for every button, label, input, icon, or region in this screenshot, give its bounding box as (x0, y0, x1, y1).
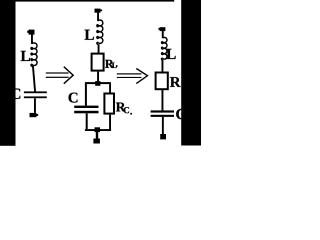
equivalence arrow 1 (46, 67, 73, 84)
wire (33, 66, 35, 92)
label RL (105, 60, 117, 68)
wire (109, 115, 111, 130)
wire (97, 72, 99, 82)
terminal (middle circuit, top) (95, 9, 103, 13)
wire (96, 132, 98, 139)
inductor L (middle circuit) (97, 20, 103, 44)
label C (right circuit, partly hidden by margin) (176, 109, 185, 119)
inductor L (left circuit) (31, 43, 37, 66)
label RC (116, 103, 132, 115)
wire (86, 113, 88, 129)
label C (left circuit, partly hidden by margin) (11, 89, 20, 99)
junction node (top) (95, 81, 100, 86)
terminal (middle circuit, bottom) (93, 139, 100, 144)
wire (right branch) (109, 84, 111, 93)
wire (162, 117, 164, 134)
resistor RL box (92, 54, 104, 71)
terminal (right circuit, bottom) (160, 134, 166, 139)
wire (162, 60, 164, 72)
label L (middle circuit) (85, 30, 94, 40)
wire (34, 98, 36, 113)
label C (middle circuit) (69, 93, 78, 103)
equivalence arrow 2 (117, 69, 148, 84)
wire (162, 89, 164, 110)
capacitor C (right circuit) (151, 110, 174, 117)
junction node (bottom) (95, 127, 101, 132)
wire (top rail) (85, 82, 111, 84)
inductor L (right circuit) (162, 37, 167, 60)
label L (left circuit) (21, 51, 30, 61)
wire (31, 35, 33, 44)
wire (97, 13, 99, 21)
wire (98, 44, 100, 53)
terminal (left circuit, bottom) (30, 113, 39, 117)
wire (bottom rail) (85, 129, 111, 131)
resistor R box (right circuit) (156, 73, 168, 90)
wire (162, 31, 164, 38)
terminal (right circuit, top) (158, 27, 165, 31)
label L (right circuit) (166, 49, 175, 59)
terminal (left circuit, top) (27, 30, 34, 35)
label R (right circuit) (170, 77, 181, 87)
capacitor C (left circuit) (24, 91, 47, 98)
resistor RC box (104, 94, 114, 114)
capacitor C (middle circuit) (74, 106, 98, 114)
wire (left branch) (85, 84, 87, 106)
